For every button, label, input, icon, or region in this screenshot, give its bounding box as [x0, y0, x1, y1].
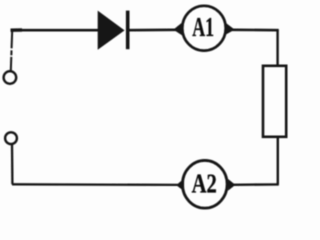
terminal T2 (bottom-left) — [5, 132, 17, 144]
svg-text:A2: A2 — [192, 168, 217, 199]
junction blob (A2 right) — [229, 180, 235, 190]
junction blob (A1 left) — [174, 23, 182, 34]
resistor R (rectangle) — [263, 66, 286, 137]
diode D1 (triangle) — [99, 12, 124, 48]
svg-text:A1: A1 — [192, 11, 214, 42]
wire (top-left horizontal, corner to diode anode) — [11, 29, 99, 32]
ammeter A1 (circle) — [182, 6, 225, 51]
wire (A2 to bottom-left corner) — [12, 183, 178, 186]
terminal T1 (top-left) — [4, 71, 17, 84]
diode D1 (cathode bar) — [126, 11, 130, 50]
wire (diode to A1) — [128, 28, 176, 31]
wire (A1 to top-right corner) — [232, 28, 279, 31]
junction (top-left corner blob) — [11, 28, 23, 32]
wire (resistor bottom to bottom-right corner) — [277, 137, 279, 185]
junction blob (A2 left) — [177, 180, 184, 191]
wire (bottom-left vertical, corner to T2) — [11, 144, 14, 185]
ammeter A2 (circle) — [182, 160, 227, 208]
wire (right vertical, corner to resistor top) — [276, 29, 278, 66]
junction blob (A1 right) — [226, 24, 233, 34]
wire (left vertical, T1 to top corner) — [11, 30, 12, 71]
wire (bottom-right horizontal, corner to A2) — [233, 183, 279, 186]
